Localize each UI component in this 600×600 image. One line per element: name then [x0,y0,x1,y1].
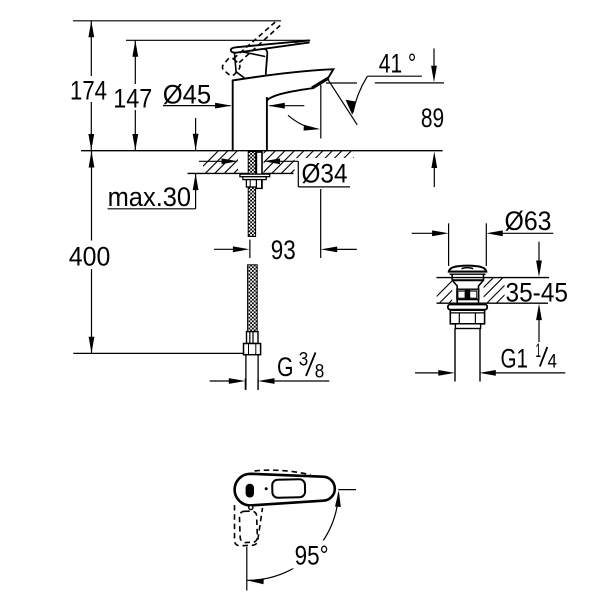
svg-text:G: G [277,352,294,382]
svg-text:Ø34: Ø34 [302,158,348,188]
svg-text:4: 4 [548,352,558,373]
svg-text:1: 1 [536,341,542,362]
svg-text:Ø63: Ø63 [505,206,552,236]
svg-text:3: 3 [299,349,309,370]
svg-text:41 °: 41 ° [379,48,417,78]
svg-text:G1: G1 [501,344,529,374]
svg-text:89: 89 [421,103,444,133]
svg-text:95°: 95° [295,541,329,571]
svg-text:93: 93 [271,235,296,265]
svg-text:35-45: 35-45 [506,277,569,307]
svg-text:174: 174 [70,75,107,105]
svg-text:Ø45: Ø45 [163,79,212,109]
svg-text:147: 147 [113,83,152,113]
svg-text:400: 400 [69,242,111,272]
svg-text:8: 8 [315,361,325,382]
svg-text:max.30: max.30 [108,182,192,212]
